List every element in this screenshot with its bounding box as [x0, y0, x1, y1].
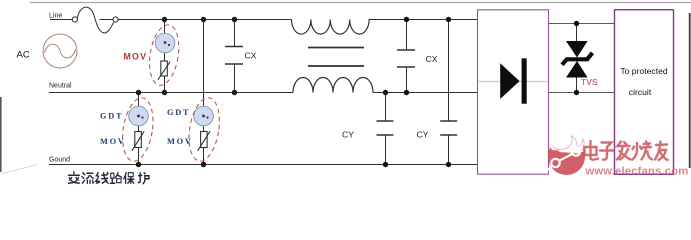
- wire output top rail: [549, 23, 621, 25]
- watermark logo circle: [548, 136, 586, 176]
- gas tube in MOV1 branch: [155, 33, 175, 53]
- varistor RV3: [201, 132, 208, 148]
- capacitor CY1: [385, 93, 387, 122]
- wire Ground rail: [49, 164, 478, 166]
- char 线: [96, 173, 108, 184]
- svg-text:To protected: To protected: [620, 66, 668, 76]
- char 保: [124, 173, 134, 184]
- svg-text:GDT: GDT: [100, 112, 123, 121]
- junction dot Line/CY2: [446, 17, 451, 22]
- svg-text:MOV: MOV: [167, 137, 193, 146]
- wire output bottom rail: [549, 92, 621, 94]
- svg-text:CX: CX: [245, 51, 257, 61]
- wire Line left segment: [50, 19, 72, 21]
- wire Line middle segment: [118, 19, 291, 21]
- TVS diode symbol: [566, 41, 588, 58]
- AC source V1: [43, 34, 77, 68]
- junction dot Ground/CY1: [383, 162, 388, 167]
- watermark text 电子发烧友 (hand drawn strokes, red): [585, 141, 668, 160]
- junction dot Line/MOV1: [162, 17, 167, 22]
- svg-text:Line: Line: [49, 12, 62, 19]
- junction dot Ground/CY2: [446, 162, 451, 167]
- wire Neutral right segment after choke: [373, 92, 478, 94]
- junction dot Line/branch2: [201, 17, 206, 22]
- wire branch2 vertical (Line to Ground): [203, 20, 205, 165]
- char 护: [138, 173, 149, 184]
- gas tube GDT1: [129, 106, 149, 126]
- char 路: [110, 173, 121, 184]
- fuse F1 S-curve: [77, 7, 113, 33]
- junction dot Line/CX1: [232, 17, 237, 22]
- choke core lines: [308, 47, 364, 49]
- capacitor CX1: [234, 20, 236, 47]
- char 烧: [633, 142, 653, 160]
- faint corner mark: [1, 165, 37, 175]
- capacitor CY2 (Line to Ground): [448, 20, 450, 122]
- dashed highlight ellipse around GDT1+RV2: [118, 96, 157, 164]
- varistor RV1: [161, 61, 168, 76]
- junction dot bottom rail/TVS: [574, 90, 579, 95]
- common-mode choke L1 bottom winding: [293, 78, 373, 93]
- junction dot Neutral/MOV1: [162, 90, 167, 95]
- junction dot Ground/branch2: [201, 162, 206, 167]
- char 发: [617, 142, 631, 160]
- svg-text:Gound: Gound: [49, 156, 70, 163]
- svg-text:CY: CY: [342, 130, 354, 140]
- dashed highlight ellipse around MOV1: [146, 23, 183, 88]
- junction dot Neutral/CX2: [404, 90, 409, 95]
- wire branch1 vertical (Neutral to Ground): [138, 93, 140, 165]
- dashed highlight ellipse around GDT2+RV3: [185, 96, 224, 164]
- svg-text:MOV: MOV: [124, 52, 148, 62]
- junction dot top rail/TVS: [574, 21, 579, 26]
- common-mode choke L1 top winding: [292, 20, 370, 35]
- svg-text:AC: AC: [17, 50, 30, 61]
- rectifier box U1: [478, 10, 549, 174]
- fuse F1 left terminal circle: [72, 17, 77, 22]
- diode D1: [500, 63, 519, 99]
- svg-text:Neutral: Neutral: [49, 82, 72, 89]
- char 电: [585, 141, 599, 160]
- junction dot Neutral/CX1: [232, 90, 237, 95]
- svg-text:GDT: GDT: [167, 108, 190, 117]
- char 流: [82, 173, 94, 184]
- svg-text:circuit: circuit: [629, 87, 652, 97]
- capacitor CX2: [406, 20, 408, 51]
- varistor RV2: [135, 132, 142, 148]
- top border gray line: [30, 2, 691, 4]
- left edge dark border: [0, 97, 2, 172]
- junction dot Ground/branch1: [136, 162, 141, 167]
- wire Line right segment after choke: [369, 19, 478, 21]
- junction dot Neutral/CY1: [383, 90, 388, 95]
- gray line through diode: [479, 81, 548, 83]
- wire branch MOV1 vertical (Line to Neutral): [164, 20, 166, 93]
- junction dot Line/CX2: [404, 17, 409, 22]
- char 友: [655, 142, 668, 161]
- char 子: [600, 143, 614, 160]
- wire Neutral left segment: [49, 92, 293, 94]
- protected circuit box: [615, 10, 674, 175]
- svg-text:CX: CX: [426, 54, 438, 64]
- svg-text:TVS: TVS: [581, 77, 598, 87]
- right edge dark border: [689, 13, 691, 168]
- svg-text:CY: CY: [417, 130, 429, 140]
- svg-text:MOV: MOV: [100, 137, 126, 146]
- fuse F1 right terminal circle: [113, 17, 118, 22]
- fuse F1 stub wire: [100, 19, 113, 21]
- char 交: [68, 172, 79, 184]
- caption: 交流线路保护 (hand drawn strokes): [68, 172, 149, 184]
- svg-text:www.elecfans.com: www.elecfans.com: [585, 166, 689, 178]
- TVS diode wire bottom: [576, 78, 578, 93]
- gas tube GDT2: [194, 106, 214, 126]
- junction dot Neutral/branch1: [136, 90, 141, 95]
- TVS diode wire top: [576, 24, 578, 43]
